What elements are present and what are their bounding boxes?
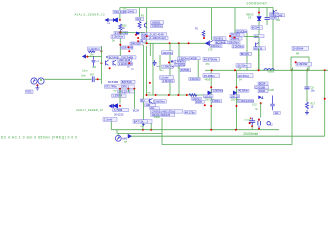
label tiny row3 [140, 40, 145, 43]
svg-text:VG1: VG1 [26, 90, 32, 94]
diode D5 [113, 18, 117, 22]
node dot cell1 top [210, 86, 212, 88]
ammeter arrow [128, 135, 131, 138]
zener2 label row B [121, 85, 134, 89]
svg-text:BD135: BD135 [241, 52, 249, 56]
wire short link left [117, 130, 162, 134]
svg-text:0.1m: 0.1m [82, 70, 88, 73]
label US6 4148 [121, 46, 134, 50]
wire bias link [244, 36, 259, 38]
svg-text:P2: P2 [195, 29, 199, 31]
node dots bias [229, 35, 231, 37]
svg-text:100R: 100R [196, 101, 202, 104]
svg-text:1.40kOhm(2): 1.40kOhm(2) [150, 36, 166, 40]
label 470R VAS2 [190, 57, 200, 60]
capacitor C5 [265, 18, 270, 20]
node dot VAS [168, 62, 170, 64]
svg-text:US6 4148: US6 4148 [121, 46, 133, 50]
label box2 [127, 9, 137, 13]
wire top rail V+ [120, 8, 273, 71]
wire vertical x198 [197, 60, 199, 78]
svg-text:BC546: BC546 [252, 26, 261, 30]
wire bottom return [162, 144, 292, 146]
svg-text:2.2kOhm(2): 2.2kOhm(2) [119, 62, 133, 66]
node dot right sense [324, 98, 326, 100]
svg-text:D46 625: D46 625 [131, 42, 141, 46]
svg-text:TP: TP [131, 69, 134, 71]
wire feedback line [131, 135, 324, 137]
svg-text:10: 10 [311, 106, 314, 109]
wire vertical x247 [246, 33, 248, 70]
svg-text:5.6kOhm: 5.6kOhm [154, 100, 166, 104]
label box driver [140, 99, 148, 103]
node dot cell2 top [236, 86, 238, 88]
label extra 10k [254, 34, 264, 38]
node dot [128, 46, 130, 48]
port arrow zener2 [109, 104, 113, 107]
label BAT54S [121, 80, 135, 84]
svg-text:BC546B: BC546B [216, 40, 226, 44]
small glyph below [142, 124, 144, 127]
svg-text:WZ: WZ [90, 74, 94, 77]
svg-text:BC54: BC54 [133, 110, 140, 113]
wire vertical x143.5 [143, 45, 145, 120]
svg-text:KOB: KOB [269, 89, 275, 92]
label 500Ohm [136, 17, 144, 21]
svg-text:1N41: 1N41 [128, 9, 135, 13]
label 2N5551 VAS [180, 69, 191, 73]
svg-text:1.250Fk: 1.250Fk [112, 94, 122, 98]
node dot above D9 [258, 12, 260, 14]
label 1 1k box [140, 119, 148, 123]
node dots at C9 [249, 122, 254, 127]
svg-text:20000mkf: 20000mkf [243, 132, 258, 136]
wire VG1 to C1 [44, 78, 91, 80]
node dot [119, 31, 121, 33]
svg-text:10kOhm: 10kOhm [162, 51, 173, 55]
svg-text:4R: 4R [296, 53, 299, 56]
label small row2 [141, 37, 149, 41]
wire vertical x160 [159, 55, 161, 70]
svg-text:BC546B: BC546B [109, 55, 119, 59]
diode glyph left [136, 32, 139, 35]
capacitor C1 [92, 77, 94, 83]
zener2 label row A [104, 85, 121, 89]
ground under VG1 [36, 85, 40, 90]
input source VG1 [31, 78, 37, 84]
diode glyphs right stack [259, 96, 264, 98]
wire load legs [293, 68, 308, 71]
label cell2 row1 [238, 89, 249, 92]
svg-text:A.7688: A.7688 [114, 108, 123, 112]
node dot after C1 [97, 78, 99, 80]
label BD365A [240, 52, 252, 56]
transistor Q2 [113, 60, 116, 65]
wire verticals zener2 [120, 89, 134, 109]
node dot D10 [119, 105, 121, 107]
label cell2 row2 [230, 95, 240, 99]
svg-text:175: 175 [208, 48, 213, 52]
svg-text:30.6220: 30.6220 [114, 112, 124, 116]
svg-text:2N5551: 2N5551 [214, 37, 224, 41]
transistor driver [150, 98, 153, 103]
svg-text:470R: 470R [191, 57, 197, 60]
svg-text:R6: R6 [141, 16, 145, 18]
svg-text:0.065m: 0.065m [212, 100, 220, 103]
svg-text:vyhod: vyhod [268, 71, 275, 74]
wire corner mute [110, 122, 112, 130]
node dot [128, 50, 130, 52]
label above load [292, 46, 309, 50]
svg-text:HB: HB [148, 93, 152, 95]
capacitor C2 [92, 56, 96, 66]
svg-text:1m: 1m [127, 67, 130, 69]
wire R20 bottom to node [119, 30, 121, 32]
wire mid rail [145, 42, 208, 44]
svg-text:10m: 10m [81, 75, 86, 78]
meter label 16.50m top [236, 64, 251, 68]
amp stage transistor glyph [144, 23, 146, 28]
svg-text:2N3904: 2N3904 [293, 47, 304, 51]
wire stubs from top rail [140, 8, 268, 71]
svg-text:370: 370 [206, 63, 211, 66]
svg-text:100Ohm: 100Ohm [211, 44, 221, 48]
svg-text:6T1.7P5a: 6T1.7P5a [105, 85, 117, 89]
svg-text:0.22: 0.22 [252, 103, 257, 106]
label 10R20k [145, 103, 156, 107]
svg-text:2.2kOhm: 2.2kOhm [112, 35, 124, 39]
svg-text:BD: BD [141, 99, 145, 103]
node dot input divider [100, 50, 102, 52]
svg-text:C2: C2 [96, 61, 100, 63]
node dot top of D5 [119, 19, 121, 21]
wire output down [291, 70, 293, 144]
label 2N5551 [213, 37, 226, 41]
top right diode D9 [257, 17, 261, 21]
label 1 mkf [160, 76, 174, 80]
svg-text:1.5kOhm: 1.5kOhm [163, 79, 174, 83]
label 2.2kOhm(2) [118, 62, 133, 66]
wire vertical x162 [161, 118, 163, 145]
svg-text:10n: 10n [311, 90, 316, 93]
svg-text:1.0kOhm: 1.0kOhm [212, 90, 222, 93]
capacitor C10 [258, 118, 261, 130]
zener2 label row C [118, 89, 135, 93]
ammeter AM1 [115, 135, 121, 141]
node dot after arrow [86, 56, 88, 58]
wire C1 to node [95, 78, 102, 80]
diode D10 [114, 104, 118, 108]
svg-text:US1 4148: US1 4148 [114, 10, 126, 14]
node dot LTP emitter [109, 67, 111, 69]
transistor Q5 [210, 41, 214, 47]
label 2N5551 under D9 [251, 26, 263, 30]
wire C9 to bus [251, 126, 253, 130]
node dot row3 [137, 40, 139, 42]
resistor under box [88, 51, 95, 53]
wire vertical x146.5 [146, 46, 148, 95]
wire output cell verticals [211, 70, 236, 129]
label VG1 [26, 90, 34, 94]
label 1.4kOhm [175, 64, 186, 67]
wire x120 down [119, 32, 121, 60]
svg-text:(2N5551+BD135)x2: (2N5551+BD135)x2 [152, 109, 176, 113]
svg-text:1000m: 1000m [244, 120, 251, 122]
wire output rail [205, 69, 328, 71]
capacitor C7 [270, 96, 275, 111]
zobel vertical [306, 70, 308, 86]
svg-text:C4: C4 [248, 17, 252, 20]
svg-text:240R: 240R [154, 116, 160, 119]
svg-text:HB: HB [114, 91, 118, 93]
port arrow IN2 [83, 55, 102, 58]
label 10kOhm [161, 51, 173, 55]
node dot load [295, 61, 297, 63]
label 1.5k [151, 24, 163, 28]
label row4 [228, 41, 240, 45]
svg-text:DC 0 AC 1 0 Sin 0 650mv [FREQ]: DC 0 AC 1 0 Sin 0 650mv [FREQ] 0 0 0 [1, 136, 77, 140]
svg-text:1.1kOhm: 1.1kOhm [88, 47, 100, 51]
right stacked label 3 [258, 89, 268, 93]
label C5 [270, 13, 279, 16]
right stacked label 1 [258, 82, 268, 86]
label cell2 row3 [238, 100, 254, 104]
transistor Q7 [256, 43, 260, 49]
label cell1 row1 [212, 89, 223, 92]
svg-text:12: 12 [270, 122, 273, 126]
svg-text:AVALI1_ZENER_10: AVALI1_ZENER_10 [76, 108, 104, 112]
label 1.40kOhm [149, 36, 168, 40]
label BC546 [274, 13, 285, 17]
node dot [137, 37, 139, 39]
source VG1 second circle [38, 78, 44, 84]
label 20k [150, 107, 160, 110]
svg-text:CVD188: CVD188 [255, 85, 265, 89]
label output pair row [151, 109, 183, 113]
svg-text:mz: mz [177, 67, 180, 69]
bias cluster labels [236, 30, 247, 33]
label BD136 [254, 46, 266, 50]
svg-text:1k2: 1k2 [274, 112, 279, 115]
wire bus A [111, 129, 279, 131]
node dot x146.7 [146, 35, 148, 37]
diode row label 1N4148(2) [141, 33, 150, 37]
label row5 [232, 45, 244, 49]
svg-text:2N5551: 2N5551 [231, 33, 241, 37]
svg-text:BC546B: BC546B [108, 80, 118, 84]
label cell1 row3 [211, 100, 221, 104]
svg-text:25.488m: 25.488m [204, 74, 216, 78]
wire ammeter top [117, 133, 119, 135]
node dot under VG1 [36, 84, 38, 86]
resistor on bus [189, 94, 197, 97]
transistor Q8 top right [274, 10, 278, 16]
label 1.40kOh [174, 60, 185, 64]
output rail dots [211, 69, 326, 71]
svg-text:R26: R26 [137, 18, 142, 21]
svg-text:10000mkf: 10000mkf [246, 1, 267, 5]
node dots C10 [258, 119, 260, 130]
svg-text:BC54: BC54 [259, 82, 266, 86]
wire vertical input node [100, 46, 102, 84]
cap glyph VAS [171, 60, 173, 62]
label SOTL [274, 111, 281, 115]
capacitor C9 polar [249, 117, 255, 126]
label TL071 [151, 20, 164, 24]
svg-text:1.5kOhm: 1.5kOhm [151, 24, 162, 28]
svg-text:D5: D5 [107, 23, 111, 25]
node dot LTP [128, 62, 130, 64]
svg-text:46.875kHz: 46.875kHz [204, 58, 218, 62]
node dot cell2 bottom [236, 105, 238, 107]
label 1.5kOhm right [189, 78, 200, 82]
node dot right stack [260, 102, 262, 104]
wire verticals to bus A [143, 122, 151, 130]
LTP label 2 [123, 55, 137, 59]
svg-text:54: 54 [239, 79, 242, 82]
svg-text:10m: 10m [123, 8, 127, 10]
svg-text:240: 240 [160, 70, 164, 72]
label 2.15kOhm [114, 31, 128, 35]
label R5 2.2kOhm [111, 35, 125, 39]
node dot [203, 37, 205, 39]
node dot cell1 bottom2 [210, 105, 212, 107]
svg-text:US2 4148: US2 4148 [152, 33, 164, 37]
label 100Ohm [210, 44, 222, 48]
node dot [119, 44, 121, 46]
svg-text:0.39/9W: 0.39/9W [297, 62, 308, 66]
svg-text:2.2kOhm: 2.2kOhm [233, 45, 244, 49]
node dot [149, 82, 151, 84]
label D46 [130, 42, 143, 46]
wire Q7 down [258, 48, 260, 70]
wire right stack down [260, 103, 262, 117]
svg-text:1.0mkf: 1.0mkf [160, 76, 168, 80]
transistor Q1 [106, 60, 109, 65]
wire verticals mid to bus [150, 43, 179, 95]
node dot cell1 bottom [204, 104, 206, 106]
zobel resistor R17 [306, 102, 309, 109]
label cell1 row2 [204, 95, 214, 99]
LTP labels BC546B x2 [108, 55, 122, 59]
wire right sense [324, 70, 326, 136]
label US2 4148 [151, 33, 167, 37]
zener2 node dots [119, 88, 135, 90]
svg-text:AVALI1_ZENER_10: AVALI1_ZENER_10 [75, 13, 106, 17]
port arrow P1 [105, 18, 113, 21]
svg-text:1.30kOhm: 1.30kOhm [162, 66, 174, 69]
label row3 [230, 37, 242, 41]
resistor glyph VAS [202, 31, 205, 37]
label US1 N4148 [113, 10, 126, 14]
label 1.5kOhm VAS1 [178, 57, 190, 61]
bottom small circle meter [267, 122, 270, 125]
node dots mid rail [146, 42, 148, 44]
meter label 16.50m bottom [237, 74, 253, 78]
zobel wire mid [306, 90, 308, 102]
svg-text:1.5kOhm: 1.5kOhm [190, 78, 200, 81]
VAS arrow [206, 42, 209, 45]
right stacked label 2 [255, 85, 269, 89]
svg-text:wk: wk [124, 141, 128, 144]
label C5 value [270, 16, 279, 19]
label 1.5kOhm [162, 79, 174, 83]
inductor L1 [264, 69, 274, 71]
label A.7688 [113, 108, 129, 112]
driver labels row [151, 113, 175, 117]
label 4R box [184, 110, 196, 114]
svg-text:5k: 5k [112, 39, 115, 43]
load box [291, 57, 309, 70]
svg-text:2.2mkf: 2.2mkf [104, 118, 113, 122]
output cell 1 arrow [207, 91, 211, 94]
svg-text:4R.1T6z: 4R.1T6z [185, 110, 196, 114]
label 1.30kOhm [162, 65, 174, 69]
zener2 label row D [112, 94, 126, 98]
output cell 2 arrow [233, 91, 236, 94]
svg-text:mkf: mkf [92, 66, 96, 69]
svg-text:1k: 1k [255, 108, 258, 111]
svg-text:(16.50m): (16.50m) [238, 74, 249, 78]
svg-text:(16.50m): (16.50m) [237, 64, 248, 68]
svg-text:BC546: BC546 [274, 13, 282, 17]
label 100R2 [195, 100, 204, 103]
meter label 25.488m [203, 74, 220, 78]
svg-text:10kOhm: 10kOhm [229, 41, 239, 45]
mute label box [133, 120, 152, 124]
wire D5 to rail [119, 8, 121, 20]
wire bus y95 [147, 94, 207, 96]
svg-text:1k2: 1k2 [276, 19, 281, 22]
label row2 [230, 33, 244, 37]
label 1kOhm [192, 97, 202, 101]
label 0.39/9W [296, 62, 312, 66]
zobel ground [305, 110, 309, 115]
bus A dots [142, 129, 237, 131]
svg-text:41.6A/m: 41.6A/m [239, 90, 248, 93]
svg-text:1m: 1m [156, 66, 159, 68]
svg-text:4R08: 4R08 [259, 89, 266, 93]
svg-text:2m: 2m [141, 126, 144, 128]
svg-text:4R36: 4R36 [205, 79, 211, 82]
zobel cap C8 [305, 87, 310, 89]
svg-text:1N5551: 1N5551 [151, 20, 161, 24]
label 1.1kOhm [87, 47, 101, 51]
resistor R20 [119, 24, 122, 30]
node dot input divider 2 [100, 62, 102, 64]
meter label 46.875k [203, 57, 220, 61]
svg-text:US8 4148: US8 4148 [119, 58, 131, 62]
capacitor small mid [153, 60, 157, 66]
label 2.2uF box [103, 118, 117, 122]
node dot left [135, 34, 137, 36]
bus dots [146, 94, 188, 96]
label US8 4148(2) [118, 58, 131, 62]
label BC546B [215, 40, 228, 44]
svg-text:2k: 2k [122, 27, 125, 30]
svg-text:BAT54S: BAT54S [122, 80, 132, 84]
wire node to diode row [120, 31, 144, 33]
resistor R21 [138, 22, 141, 29]
svg-text:2N5551: 2N5551 [181, 69, 190, 72]
label 5.6kOhm [153, 100, 166, 104]
